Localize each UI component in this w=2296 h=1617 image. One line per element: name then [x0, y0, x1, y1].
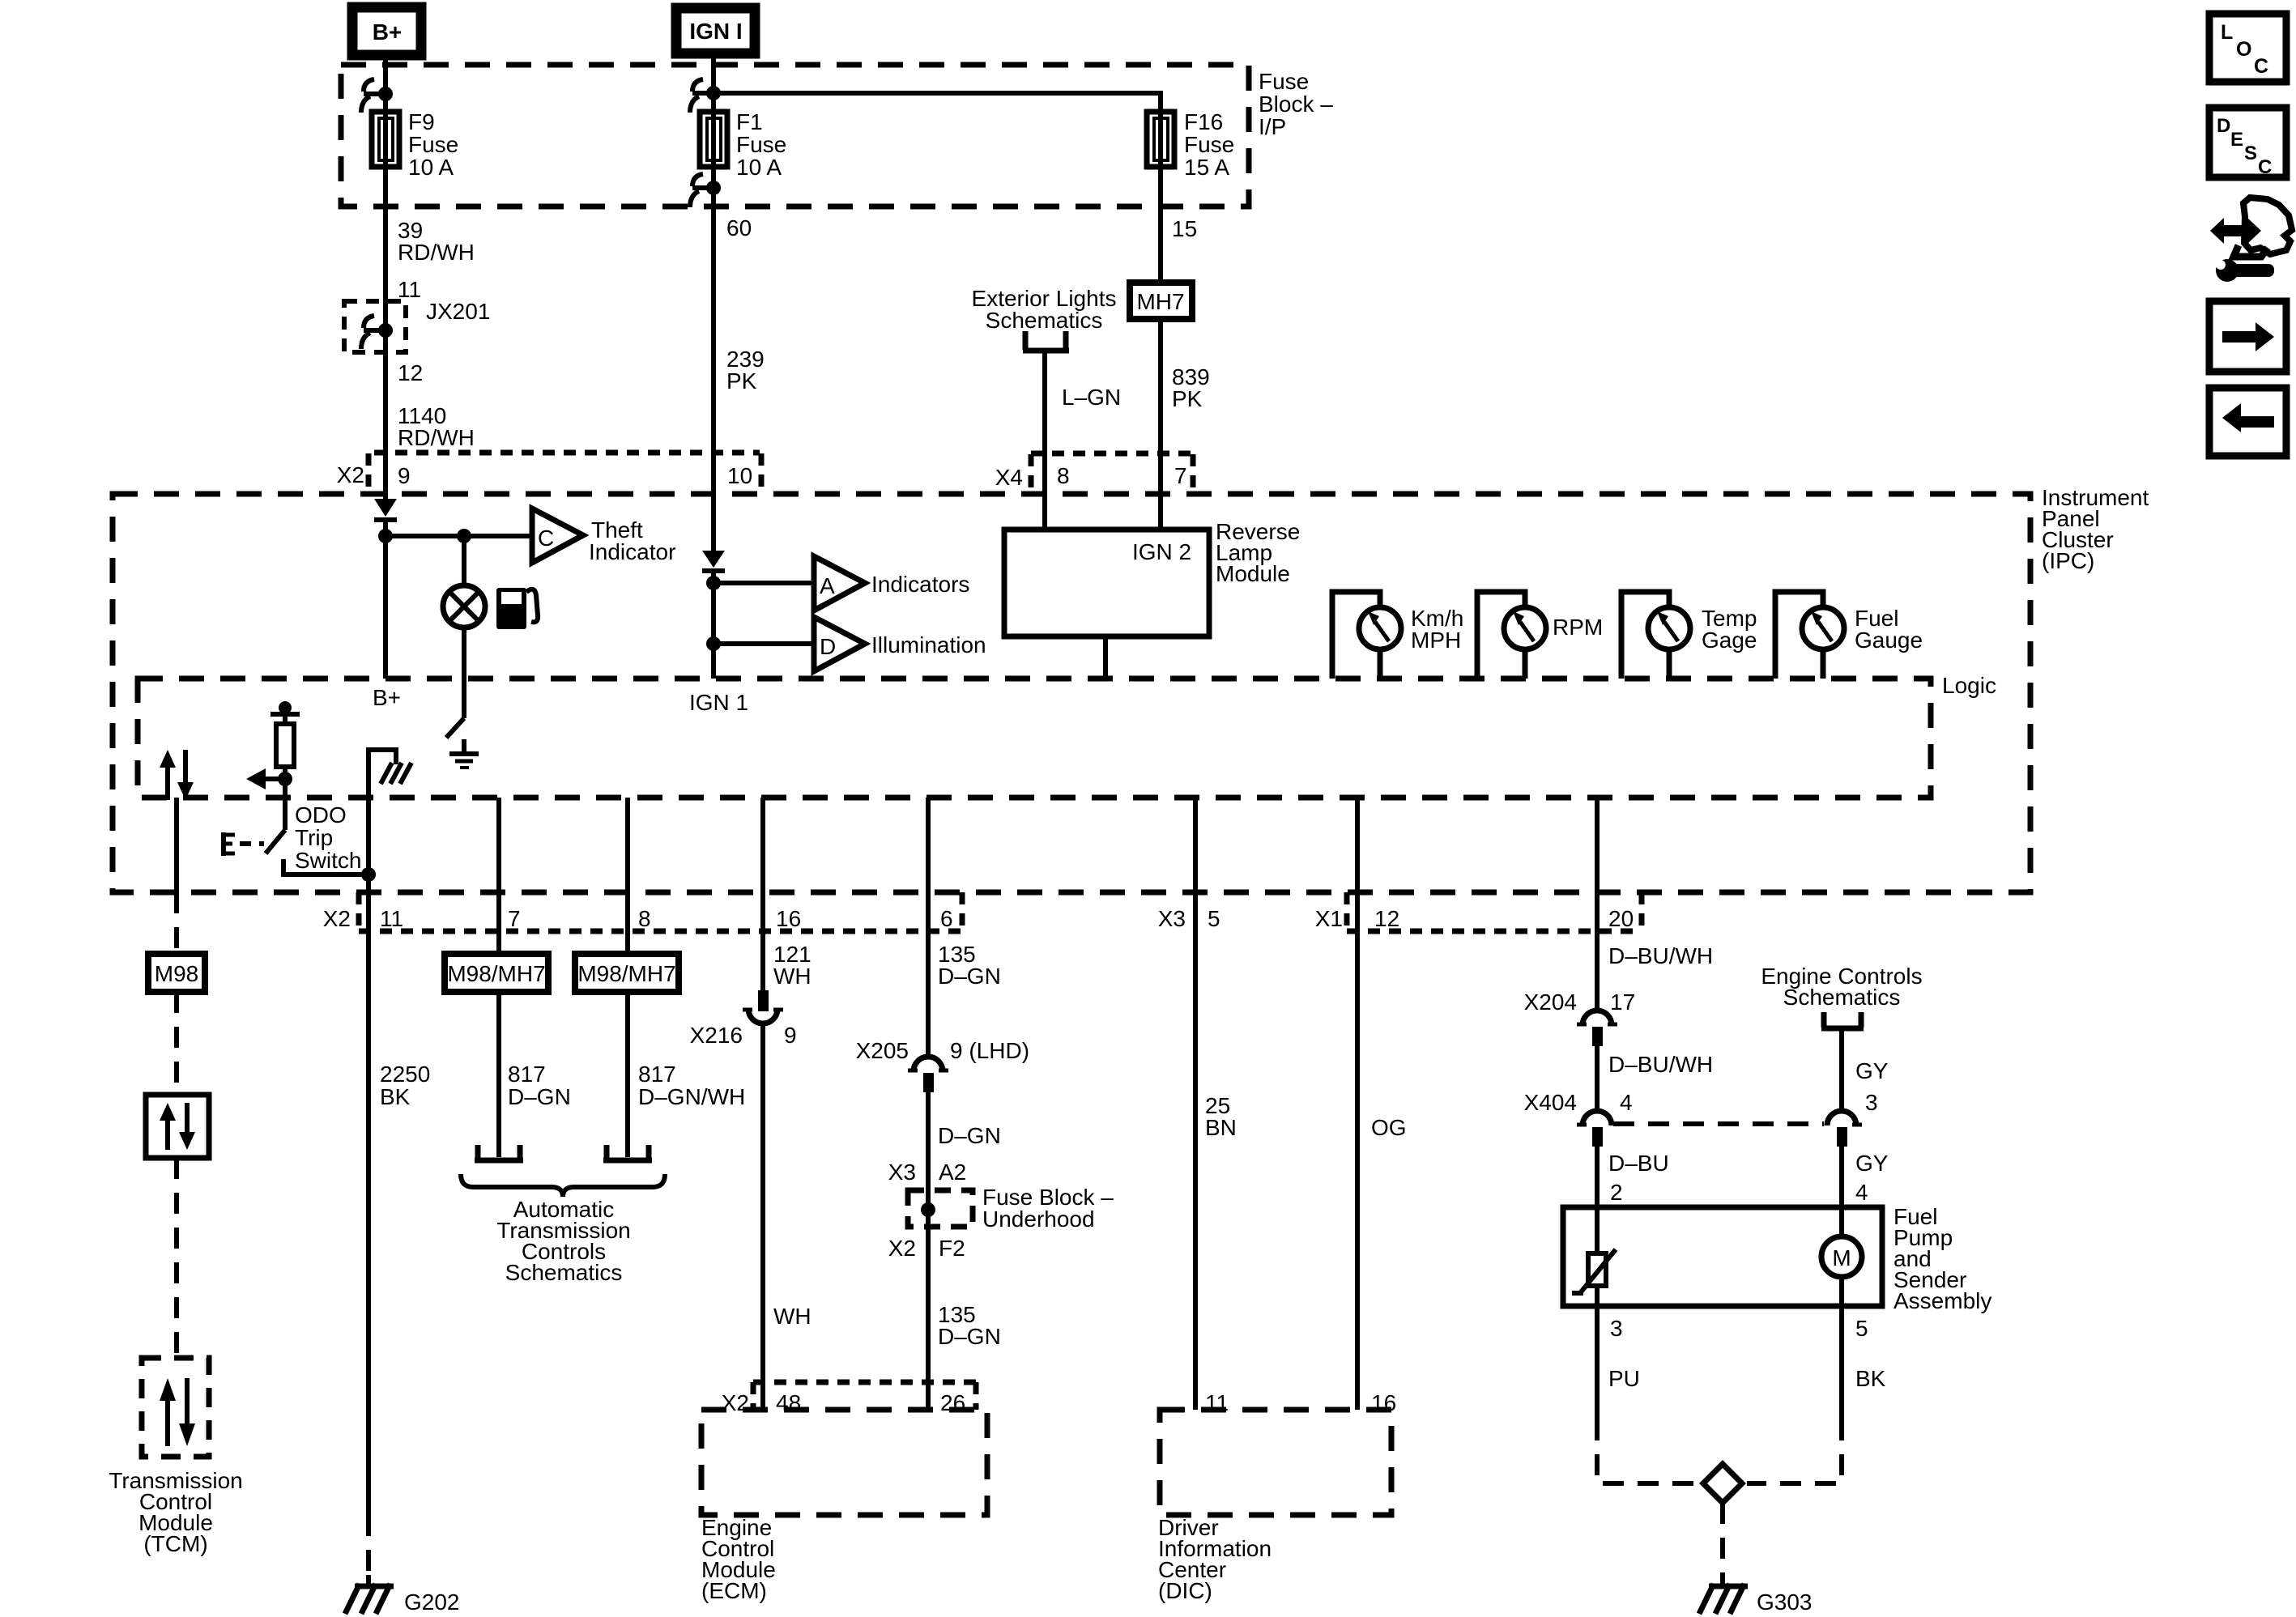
svg-text:17: 17	[1610, 989, 1635, 1015]
connector X4 top strip	[995, 453, 1193, 494]
svg-text:12: 12	[1374, 906, 1399, 931]
svg-text:3: 3	[1865, 1090, 1878, 1115]
svg-text:X404: X404	[1524, 1090, 1577, 1115]
svg-text:Fuse: Fuse	[1259, 69, 1309, 94]
wire lamp to switch	[462, 628, 466, 718]
ground G202	[345, 1584, 460, 1615]
connector M98 box	[148, 954, 205, 992]
svg-text:X3: X3	[1158, 906, 1186, 931]
buffer D illumination	[814, 617, 986, 671]
wire junction to switch	[283, 779, 288, 830]
svg-text:M98/MH7: M98/MH7	[447, 961, 545, 986]
svg-text:F2: F2	[939, 1236, 965, 1261]
svg-text:D–GN: D–GN	[938, 1123, 1001, 1148]
svg-text:12: 12	[398, 360, 423, 385]
svg-text:M: M	[1832, 1245, 1851, 1270]
svg-text:D–BU/WH: D–BU/WH	[1608, 1052, 1713, 1077]
svg-text:Block –: Block –	[1259, 91, 1333, 117]
svg-text:RPM: RPM	[1553, 615, 1603, 640]
svg-text:IGN 1: IGN 1	[689, 690, 748, 715]
fuse F9 10A	[372, 109, 458, 180]
fuse F16 15A	[1147, 109, 1234, 180]
junction lamp tap	[457, 529, 471, 543]
svg-text:RD/WH: RD/WH	[398, 240, 475, 265]
wire 20 from logic	[1595, 798, 1600, 1012]
svg-text:10 A: 10 A	[736, 155, 782, 180]
fuse F1 10A	[700, 109, 786, 180]
svg-text:RD/WH: RD/WH	[398, 425, 475, 450]
svg-text:10 A: 10 A	[408, 155, 454, 180]
nav icon hand with arrow and wrench	[2210, 198, 2292, 282]
svg-text:X1: X1	[1315, 906, 1343, 931]
svg-text:M98: M98	[155, 961, 198, 986]
svg-text:9 (LHD): 9 (LHD)	[950, 1038, 1029, 1063]
clip at JX201	[361, 316, 386, 349]
wire D-BU to sender	[1595, 1147, 1600, 1253]
svg-text:F9: F9	[408, 109, 435, 134]
svg-text:C: C	[2258, 156, 2272, 178]
wire 12 from logic to DIC	[1355, 798, 1360, 1410]
logic dashed box	[138, 679, 1931, 798]
svg-text:IGN I: IGN I	[689, 19, 742, 44]
svg-text:X3: X3	[888, 1160, 916, 1185]
nav icon arrow left	[2209, 388, 2286, 456]
wire B+ vertical	[383, 55, 388, 500]
buffer A indicators	[814, 556, 969, 611]
svg-text:10: 10	[727, 463, 752, 488]
connector ECM strip	[722, 1382, 976, 1415]
svg-text:C: C	[2254, 55, 2268, 78]
svg-text:817: 817	[508, 1062, 546, 1087]
connector M98/MH7 box A	[445, 954, 548, 992]
svg-text:X2: X2	[888, 1236, 916, 1261]
gauge Temp Gage	[1621, 592, 1757, 679]
svg-text:S: S	[2244, 143, 2257, 164]
svg-text:GY: GY	[1855, 1058, 1889, 1083]
resistor ODO pull-up	[276, 724, 294, 767]
label Automatic Transmission Controls Schematics	[496, 1197, 630, 1285]
svg-text:Module: Module	[1216, 561, 1290, 586]
connector X3 bottom labels	[1158, 906, 1220, 931]
connector X205	[856, 1038, 1029, 1092]
wire L-GN down to X4 pin 8	[1042, 353, 1047, 530]
svg-text:9: 9	[784, 1023, 797, 1048]
label Engine Control Module (ECM)	[701, 1515, 776, 1603]
svg-text:8: 8	[1057, 463, 1070, 488]
power symbol B+ box	[352, 7, 421, 55]
svg-text:11: 11	[398, 277, 421, 302]
wire GY to motor	[1839, 1147, 1844, 1236]
svg-text:2250: 2250	[380, 1062, 430, 1087]
svg-text:4: 4	[1620, 1090, 1633, 1115]
svg-text:D–GN: D–GN	[938, 1324, 1001, 1349]
wire 16 from logic	[760, 798, 765, 990]
connector X204	[1524, 989, 1636, 1046]
off-page bracket Exterior Lights	[1023, 331, 1069, 351]
svg-text:A2: A2	[939, 1160, 966, 1185]
svg-text:E: E	[2230, 129, 2243, 151]
svg-text:BN: BN	[1205, 1115, 1237, 1140]
connector X2 top strip	[337, 453, 761, 494]
svg-text:X2: X2	[337, 462, 364, 487]
serial data box	[146, 1095, 209, 1158]
instrument panel cluster IPC dashed box	[113, 494, 2030, 892]
svg-text:9: 9	[398, 463, 411, 488]
svg-text:JX201: JX201	[426, 299, 490, 324]
TCM dashed box	[142, 1358, 209, 1457]
svg-text:WH: WH	[773, 1304, 811, 1329]
junction ODO	[278, 772, 292, 786]
label Fuse Block - I/P	[1259, 69, 1333, 139]
nav icon DESC	[2209, 108, 2286, 178]
label Transmission Control Module (TCM)	[109, 1468, 242, 1556]
svg-text:16: 16	[776, 906, 801, 931]
svg-text:Schematics: Schematics	[986, 308, 1103, 333]
svg-text:Gauge: Gauge	[1855, 628, 1923, 653]
svg-text:WH: WH	[773, 964, 811, 989]
wire IGN1 down	[711, 571, 716, 679]
svg-text:Fuse: Fuse	[408, 132, 458, 157]
connector MH7 box	[1130, 283, 1192, 319]
svg-text:L: L	[2221, 21, 2233, 44]
ground G303	[1699, 1584, 1813, 1615]
diode on B+ feed	[374, 499, 397, 536]
svg-text:Gage: Gage	[1702, 628, 1757, 653]
wire lamp drop	[462, 536, 466, 585]
wire resistor to junction	[283, 767, 288, 779]
svg-text:7: 7	[1174, 463, 1187, 488]
clip at F9 top	[361, 79, 386, 113]
fuel pump and sender assembly box	[1563, 1207, 1882, 1306]
svg-text:B+: B+	[373, 685, 401, 710]
off-page bracket Engine Controls	[1821, 1012, 1864, 1028]
wire GY from bracket	[1839, 1031, 1844, 1113]
wire 8 to off-page cup	[625, 992, 630, 1157]
svg-text:Trip: Trip	[295, 825, 333, 850]
wire G202 dashed tail	[366, 1515, 371, 1575]
junction node B+	[378, 529, 393, 543]
svg-text:Fuse: Fuse	[1184, 132, 1234, 157]
svg-text:X205: X205	[856, 1038, 909, 1063]
svg-text:OG: OG	[1371, 1115, 1407, 1140]
engine control module ECM dashed box	[701, 1410, 987, 1515]
wire 5 from logic to DIC	[1193, 798, 1198, 1410]
wire sender to pin 3	[1595, 1286, 1600, 1419]
junction in underhood block	[921, 1202, 935, 1217]
junction illumination tap	[706, 636, 721, 651]
svg-text:6: 6	[940, 906, 953, 931]
serial data arrows in logic	[160, 750, 194, 800]
svg-text:PU: PU	[1608, 1366, 1640, 1391]
connector X216	[690, 990, 797, 1048]
wire 6 from logic	[926, 798, 931, 1058]
label Fuel Pump and Sender Assembly	[1893, 1204, 1991, 1313]
svg-text:D: D	[2217, 115, 2230, 137]
junction block JX201 dashed box	[344, 301, 406, 352]
wire 8 from logic	[625, 798, 630, 954]
wire data box to TCM	[174, 1158, 179, 1358]
connector X2 bottom strip	[323, 892, 962, 931]
label Driver Information Center (DIC)	[1158, 1515, 1272, 1603]
svg-text:8: 8	[638, 906, 651, 931]
svg-text:BK: BK	[1855, 1366, 1886, 1391]
connector X404	[1524, 1090, 1633, 1147]
svg-text:Schematics: Schematics	[505, 1260, 623, 1285]
wire splice to G303	[1720, 1503, 1725, 1575]
junction at F1 top	[706, 86, 721, 100]
fuse block underhood dashed box	[908, 1190, 973, 1227]
svg-text:3: 3	[1610, 1316, 1623, 1341]
sender variable resistor	[1572, 1249, 1616, 1293]
svg-text:7: 7	[508, 906, 521, 931]
svg-text:D–GN/WH: D–GN/WH	[638, 1084, 745, 1109]
wire to theft indicator	[386, 534, 532, 538]
svg-text:D: D	[820, 634, 836, 659]
svg-text:Schematics: Schematics	[1783, 985, 1901, 1010]
label ODO Trip Switch	[295, 802, 361, 873]
svg-text:IGN 2: IGN 2	[1132, 539, 1191, 564]
wire to buffer A	[714, 581, 814, 585]
wire to buffer D	[714, 641, 814, 646]
wire RLM to logic	[1103, 636, 1108, 679]
svg-text:(IPC): (IPC)	[2042, 548, 2094, 573]
gauge RPM	[1477, 592, 1603, 679]
brace automatic transmission	[461, 1174, 665, 1197]
wire MH7 down to X4 pin 7	[1158, 319, 1163, 530]
svg-text:X4: X4	[995, 465, 1023, 490]
connector X1 bottom strip	[1315, 892, 1642, 931]
switch fixed contact wire	[283, 859, 368, 874]
svg-text:ODO: ODO	[295, 802, 347, 828]
wire 6 to fuse block underhood	[926, 1092, 931, 1410]
svg-text:Fuse: Fuse	[736, 132, 786, 157]
junction indicators tap	[706, 576, 721, 590]
svg-text:B+: B+	[373, 19, 403, 45]
svg-text:5: 5	[1855, 1316, 1868, 1341]
svg-text:MH7: MH7	[1136, 289, 1184, 314]
svg-text:(ECM): (ECM)	[701, 1578, 767, 1603]
svg-text:11: 11	[380, 906, 403, 931]
svg-text:C: C	[538, 526, 554, 551]
wire 16 to ECM pin 48	[760, 1023, 765, 1410]
svg-text:15: 15	[1172, 216, 1197, 241]
diode on IGN1 feed	[702, 551, 725, 571]
wire BK dashed to splice	[1747, 1419, 1842, 1483]
svg-text:L–GN: L–GN	[1062, 385, 1121, 410]
wire fuse block jumper to F16	[714, 93, 1161, 112]
wire F16 to MH7	[1158, 167, 1163, 283]
ODO trip switch blade	[266, 830, 285, 853]
connector M98/MH7 box B	[575, 954, 679, 992]
svg-text:2: 2	[1610, 1180, 1623, 1205]
svg-text:D–GN: D–GN	[508, 1084, 571, 1109]
svg-text:X204: X204	[1524, 989, 1577, 1015]
actuator E symbol	[224, 832, 264, 856]
label Instrument Panel Cluster (IPC)	[2042, 485, 2149, 573]
svg-text:20: 20	[1608, 906, 1634, 931]
junction switch to ground wire	[361, 867, 376, 882]
svg-text:BK: BK	[380, 1084, 411, 1109]
svg-text:Logic: Logic	[1942, 673, 1996, 698]
svg-text:Indicator: Indicator	[589, 539, 675, 564]
svg-text:D–BU/WH: D–BU/WH	[1608, 943, 1713, 968]
wire 7 from logic	[496, 798, 501, 954]
reverse lamp module box	[1004, 519, 1300, 636]
gauge Km/h MPH	[1332, 592, 1463, 679]
clip at F1 bottom	[690, 174, 714, 207]
wire X4 pin7 into reverse lamp module	[1158, 494, 1163, 530]
wire X4 pin8 into reverse lamp module	[1042, 494, 1047, 530]
splice diamond	[1703, 1464, 1742, 1503]
junction at F9 top	[378, 87, 393, 101]
clip at F1 top	[690, 79, 714, 113]
svg-text:PK: PK	[1172, 386, 1203, 411]
wire motor to pin 5	[1839, 1277, 1844, 1419]
svg-text:O: O	[2236, 38, 2251, 61]
gauge Fuel Gauge	[1775, 592, 1923, 679]
wire IGN I vertical	[711, 53, 716, 551]
wire TCM serial dashed to M98	[174, 892, 179, 954]
junction at JX201	[378, 323, 393, 338]
svg-text:Indicators: Indicators	[871, 572, 969, 597]
connector X404 pin 3	[1827, 1090, 1878, 1147]
svg-text:X216: X216	[690, 1023, 743, 1048]
svg-text:PK: PK	[726, 368, 757, 394]
svg-text:A: A	[820, 573, 835, 598]
svg-text:Underhood: Underhood	[982, 1206, 1095, 1232]
connector X404 dashed link	[1613, 1121, 1824, 1126]
svg-text:D–GN: D–GN	[938, 964, 1001, 989]
signal arrow left	[246, 768, 285, 789]
nav icon arrow right	[2209, 301, 2286, 372]
svg-text:D–BU: D–BU	[1608, 1151, 1669, 1176]
chassis ground r-symbol in IPC	[368, 750, 411, 784]
nav icon LOC	[2209, 14, 2286, 82]
wire 11 ground wire vertical	[366, 761, 371, 1515]
svg-text:Assembly: Assembly	[1893, 1288, 1991, 1313]
fuse block I/P dashed box	[341, 65, 1249, 206]
svg-text:817: 817	[638, 1062, 676, 1087]
wire M98 to data box	[174, 992, 179, 1095]
wire TCM serial inside IPC	[174, 798, 179, 892]
svg-text:60: 60	[726, 215, 752, 240]
svg-text:Switch: Switch	[295, 848, 361, 873]
indicator lamp	[443, 585, 485, 628]
svg-text:(DIC): (DIC)	[1158, 1578, 1212, 1603]
odo reset terminal	[270, 701, 300, 724]
svg-text:G303: G303	[1757, 1589, 1813, 1615]
svg-text:F1: F1	[736, 109, 763, 134]
svg-text:I/P: I/P	[1259, 114, 1286, 139]
wire X204 to X404	[1595, 1046, 1600, 1113]
junction at F1 bottom	[706, 181, 721, 195]
svg-text:M98/MH7: M98/MH7	[577, 961, 675, 986]
svg-text:G202: G202	[404, 1589, 460, 1615]
wire PU dashed to splice	[1597, 1419, 1698, 1483]
svg-text:15 A: 15 A	[1184, 155, 1229, 180]
off-page cup wire 7	[475, 1145, 523, 1160]
svg-text:(TCM): (TCM)	[143, 1531, 207, 1556]
svg-text:4: 4	[1855, 1180, 1868, 1205]
wire 7 to off-page cup	[496, 992, 501, 1157]
svg-text:X2: X2	[323, 906, 351, 931]
wire B+ down to logic	[383, 536, 388, 679]
off-page cup wire 8	[603, 1145, 652, 1160]
svg-text:F16: F16	[1184, 109, 1223, 134]
svg-text:GY: GY	[1855, 1151, 1889, 1176]
driver information center DIC dashed box	[1160, 1410, 1391, 1515]
fuel pump motor M	[1821, 1236, 1862, 1277]
svg-text:Illumination: Illumination	[871, 632, 986, 657]
power symbol IGN I box	[676, 8, 755, 53]
svg-text:5: 5	[1208, 906, 1220, 931]
ground inside IPC (signal ground)	[449, 739, 479, 768]
switch blade	[446, 718, 464, 738]
fuel pump telltale icon	[496, 588, 538, 629]
buffer C theft indicator	[532, 509, 675, 564]
svg-text:MPH: MPH	[1411, 628, 1461, 653]
